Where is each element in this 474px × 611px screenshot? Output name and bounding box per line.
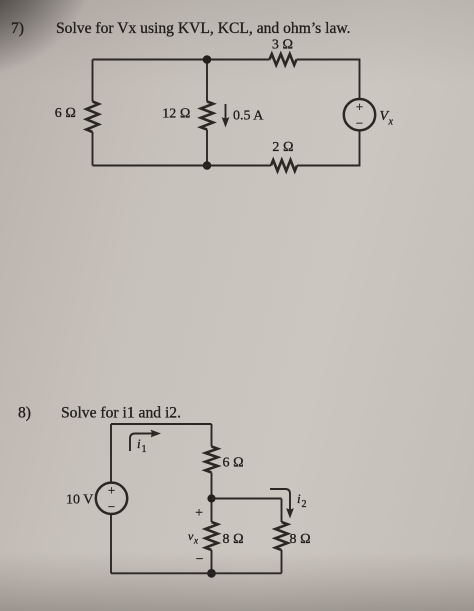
wire bottom-left segment <box>93 165 272 167</box>
svg-text:8): 8) <box>18 405 31 422</box>
svg-text:2: 2 <box>302 499 307 510</box>
node top junction <box>203 55 212 64</box>
resistor R 12ohm <box>201 102 213 130</box>
wire right branch lower <box>281 550 283 573</box>
source 10V circle <box>96 483 127 514</box>
wire middle branch upper <box>206 60 208 102</box>
wire left branch upper <box>92 60 94 102</box>
wire top-left segment (circuit 7) <box>93 59 270 61</box>
svg-text:3 Ω: 3 Ω <box>272 38 293 53</box>
resistor R 3ohm <box>270 54 297 65</box>
current arrow i1 <box>130 434 154 452</box>
wire middle branch upper <box>211 424 213 447</box>
svg-text:7): 7) <box>11 20 24 37</box>
resistor R 8ohm right <box>275 522 287 550</box>
svg-text:6 Ω: 6 Ω <box>55 106 76 121</box>
svg-text:+: + <box>108 483 115 498</box>
node bottom junction circuit8 <box>207 569 216 578</box>
wire left branch upper <box>110 424 112 483</box>
wire right branch upper <box>281 499 283 523</box>
svg-text:x: x <box>388 117 394 128</box>
svg-text:Solve for i1 and i2.: Solve for i1 and i2. <box>61 405 181 422</box>
svg-text:i: i <box>297 491 301 506</box>
svg-text:8 Ω: 8 Ω <box>223 532 244 547</box>
svg-text:x: x <box>193 536 198 546</box>
svg-text:8 Ω: 8 Ω <box>290 532 311 547</box>
svg-text:i: i <box>137 436 141 451</box>
svg-text:6 Ω: 6 Ω <box>223 456 244 471</box>
current arrow i2 <box>270 489 290 512</box>
wire left branch lower <box>92 132 94 166</box>
svg-text:−: − <box>196 551 204 566</box>
svg-text:+: + <box>356 99 363 114</box>
wire top (circuit 8) <box>111 423 212 425</box>
svg-text:−: − <box>108 499 115 514</box>
wire middle horizontal <box>212 498 282 500</box>
node middle junction <box>207 494 215 502</box>
wire top-right segment <box>297 60 360 100</box>
resistor R 2ohm <box>271 160 297 171</box>
wire bottom-right segment <box>297 131 360 166</box>
current arrow 0.5A <box>222 104 230 128</box>
svg-text:−: − <box>356 116 363 131</box>
svg-text:12 Ω: 12 Ω <box>162 107 190 122</box>
source Vx circle <box>344 99 375 130</box>
wire bottom (circuit 8) <box>111 572 282 574</box>
wire middle branch mid <box>211 473 213 523</box>
svg-text:2 Ω: 2 Ω <box>272 140 293 155</box>
svg-text:+: + <box>195 505 203 520</box>
svg-text:10 V: 10 V <box>66 493 93 508</box>
svg-text:1: 1 <box>142 444 147 455</box>
resistor R 6ohm circuit8 <box>205 447 217 473</box>
wire middle branch lower <box>206 130 208 166</box>
node bottom junction <box>203 161 212 170</box>
wire middle branch lower <box>211 550 213 573</box>
svg-text:Solve for Vx using KVL, KCL, a: Solve for Vx using KVL, KCL, and ohm’s l… <box>56 20 351 37</box>
resistor R 8ohm middle <box>205 522 217 550</box>
svg-text:0.5 A: 0.5 A <box>233 109 264 124</box>
wire left branch lower <box>110 514 112 574</box>
resistor R 6ohm <box>86 102 98 133</box>
